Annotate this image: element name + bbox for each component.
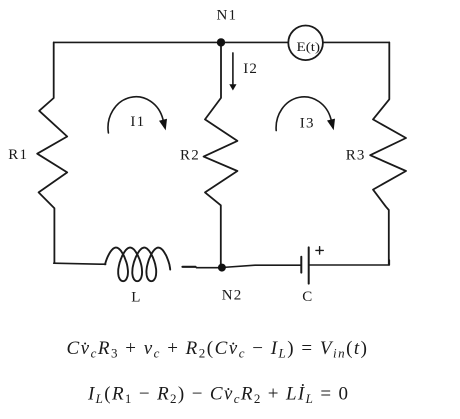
svg-text:L: L xyxy=(131,290,141,306)
svg-text:C: C xyxy=(302,289,313,305)
svg-text:I2: I2 xyxy=(243,61,258,77)
svg-text:N1: N1 xyxy=(217,7,238,23)
svg-text:I3: I3 xyxy=(300,116,315,132)
svg-text:R1: R1 xyxy=(8,147,28,163)
svg-text:R3: R3 xyxy=(346,148,366,164)
svg-text:IL(R1 − R2) − Cv̇cR2 + LİL =: IL(R1 − R2) − Cv̇cR2 + LİL = 0 xyxy=(87,384,348,407)
svg-text:N2: N2 xyxy=(222,288,243,304)
svg-text:I1: I1 xyxy=(130,114,145,130)
svg-text:R2: R2 xyxy=(180,148,200,164)
svg-text:E(t): E(t) xyxy=(297,39,321,54)
svg-text:Cv̇cR3 + vc + R2(Cv̇c − IL) =: Cv̇cR3 + vc + R2(Cv̇c − IL) = Vin(t) xyxy=(67,338,368,361)
